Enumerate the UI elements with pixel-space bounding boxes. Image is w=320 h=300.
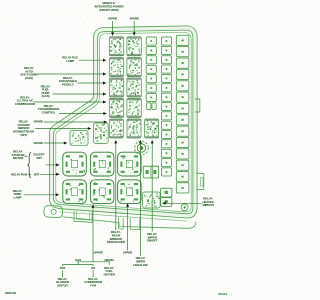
relay module grid col2 row1 <box>127 37 141 56</box>
leader wiper on/off <box>151 140 154 231</box>
fuse B3 <box>161 56 171 64</box>
fuse A3 <box>146 56 156 64</box>
hd to condenser line <box>92 270 94 277</box>
fuse C12 <box>176 160 189 170</box>
relay fuel pump socket <box>90 152 114 176</box>
fuse B6 <box>161 84 171 92</box>
right side tab upper <box>195 99 200 112</box>
leader wiper high/low <box>139 140 142 256</box>
svg-text:RELAY-RUN: RELAY-RUN <box>11 173 27 177</box>
leader park lamp <box>24 193 59 196</box>
relay starter motor socket <box>63 152 87 176</box>
housing inner wall line <box>56 32 191 212</box>
fuse C14 <box>176 183 189 193</box>
fuse C6 <box>176 92 189 102</box>
leader oxygen sensor <box>35 127 91 130</box>
fuse C1 <box>176 35 189 45</box>
fuse C11 <box>176 149 189 159</box>
relay transmission socket <box>118 152 142 176</box>
side connector <box>143 166 159 178</box>
fuse C13 <box>176 172 189 182</box>
svg-text:SPARE: SPARE <box>34 141 44 145</box>
leader spare top 1 <box>111 21 114 36</box>
fuse B15 <box>161 168 171 176</box>
fuse C4 <box>176 69 189 79</box>
relay module grid col2 row4 <box>127 98 141 117</box>
relay module heated mirror <box>143 192 161 208</box>
svg-text:RELAY-WIPERON/OFF: RELAY-WIPERON/OFF <box>147 232 158 243</box>
relay park lamp socket <box>63 180 87 204</box>
svg-text:SRT: SRT <box>60 266 66 270</box>
relay blower socket <box>90 180 114 204</box>
dash run <box>28 173 31 175</box>
fuse B4 <box>161 65 171 73</box>
leader spare top 2 <box>133 21 136 36</box>
leader except srt <box>46 163 60 166</box>
svg-text:SPARE: SPARE <box>34 119 44 123</box>
fuse B1 <box>161 37 171 45</box>
svg-text:RELAY-HEATEDMIRROR: RELAY-HEATEDMIRROR <box>202 197 214 208</box>
fuse C10 <box>176 137 189 147</box>
fuse B11 <box>161 131 171 139</box>
right side tab lower <box>196 173 204 190</box>
leader fog lamp <box>79 59 106 62</box>
lower skirt edge <box>63 217 196 229</box>
fuse A5 <box>146 75 156 83</box>
two-cell connector <box>161 188 172 206</box>
fuse B8 <box>161 103 171 111</box>
fuse C2 <box>176 47 189 57</box>
leader heated mirror <box>162 202 201 205</box>
svg-text:SPARE: SPARE <box>130 16 140 20</box>
leader spare mid 2 <box>44 142 67 145</box>
svg-text:SRT: SRT <box>34 173 40 177</box>
fuse B9 <box>161 112 171 120</box>
svg-text:DR#2 KB: DR#2 KB <box>5 291 16 295</box>
relay module mid-row col2 <box>127 119 141 138</box>
leader spare bottom 2 <box>126 204 129 251</box>
relay module grid col1 row1 <box>109 37 123 56</box>
relay condenser socket <box>118 180 142 204</box>
leader rear window defrogger <box>114 140 117 230</box>
fuse B5 <box>161 74 171 82</box>
leader srt <box>40 173 59 176</box>
fuse A2 <box>146 46 156 54</box>
fuse B7 <box>161 93 171 101</box>
fuse A4 <box>146 65 156 73</box>
fuse B13 <box>161 149 171 157</box>
spare terminals pair <box>147 103 157 110</box>
svg-text:SPARE: SPARE <box>123 250 133 254</box>
leader spare mid 1 <box>44 121 107 124</box>
fuse C8 <box>176 115 189 125</box>
svg-text:J0506-6: J0506-6 <box>218 292 228 296</box>
relay module mid-row col3 <box>145 119 159 138</box>
fuse B10 <box>161 121 171 129</box>
skirt mid line <box>60 212 187 221</box>
svg-text:DIESEL: DIESEL <box>105 258 115 262</box>
fuse box housing outer wall band <box>52 28 196 216</box>
fuse C7 <box>176 103 189 113</box>
svg-text:RELAY-FUELPUMP(GAS): RELAY-FUELPUMP(GAS) <box>41 84 51 98</box>
svg-text:SPARE: SPARE <box>108 16 118 20</box>
relay module oxygen sensor <box>94 123 109 143</box>
ear bolt hole <box>51 209 56 214</box>
fuse B2 <box>161 46 171 54</box>
leader transmission control <box>59 112 107 115</box>
relay module wide (spare) <box>70 131 88 146</box>
bottom mounting ear <box>44 205 63 217</box>
bottom support tab 2 <box>130 218 140 230</box>
relay module grid col1 row2 <box>109 58 123 77</box>
srt to blower line <box>62 270 64 277</box>
brace except/srt <box>27 153 31 178</box>
srt/hd split bar <box>63 265 94 267</box>
fuse C3 <box>176 58 189 68</box>
fuse A6 <box>146 84 156 92</box>
svg-text:RELAY-PARKLAMP: RELAY-PARKLAMP <box>13 189 23 200</box>
leader clutch ac <box>34 101 106 104</box>
leader auto shut down <box>38 73 106 76</box>
svg-text:GAS: GAS <box>75 258 81 262</box>
relay module grid col2 row2 <box>127 58 141 77</box>
dash starter <box>25 155 28 157</box>
bottom support tab 1 <box>119 218 124 230</box>
svg-text:SPARE: SPARE <box>94 250 104 254</box>
bottom support pocket left <box>74 211 92 223</box>
relay module mid-row col1 <box>109 119 123 138</box>
fuse B12 <box>161 140 171 148</box>
relay module grid col2 row3 <box>127 78 141 97</box>
relay module grid col1 row3 <box>109 78 123 97</box>
relay module grid col1 row4 <box>109 98 123 117</box>
center screw boss <box>135 141 149 155</box>
fuse C9 <box>176 126 189 136</box>
bottom-right screw <box>181 204 188 211</box>
gas/diesel split bar <box>77 262 110 265</box>
fuse A1 <box>146 37 156 45</box>
fuse A7 <box>146 93 156 101</box>
fuse B14 <box>161 159 171 167</box>
leader fuel pump <box>53 93 106 96</box>
fuse C5 <box>176 81 189 91</box>
leader spare/gas trunk <box>92 205 95 262</box>
leader adjustable pedals <box>77 82 106 85</box>
